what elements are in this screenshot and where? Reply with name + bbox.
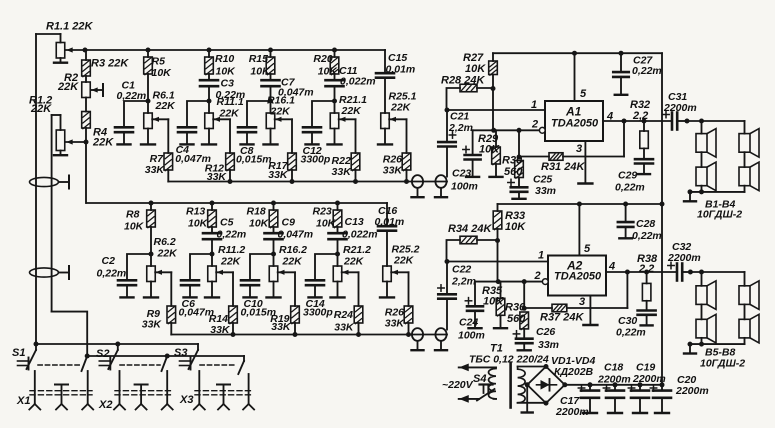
ground B1-B4 bbox=[688, 189, 693, 194]
capacitor C23 bbox=[472, 130, 474, 155]
wire A1 pin2 line bbox=[473, 129, 540, 131]
capacitor C12 bbox=[312, 101, 335, 127]
svg-text:C22: C22 bbox=[452, 264, 471, 276]
svg-text:R13: R13 bbox=[186, 206, 205, 218]
node tone section bbox=[335, 252, 340, 257]
pin 3 wire to ground (A2) bbox=[589, 296, 591, 325]
resistor R12 bbox=[226, 153, 235, 170]
node volume wiper bbox=[83, 48, 88, 53]
svg-text:4: 4 bbox=[608, 261, 615, 273]
capacitor C16 bbox=[386, 203, 388, 226]
svg-text:22K: 22K bbox=[155, 100, 177, 112]
svg-text:3300p: 3300p bbox=[303, 307, 333, 319]
svg-text:2200m: 2200m bbox=[663, 102, 697, 114]
svg-text:C9: C9 bbox=[282, 217, 296, 229]
resistor R23 bbox=[337, 203, 339, 210]
switch S3 pole B bbox=[243, 356, 245, 361]
capacitor C7 bbox=[270, 74, 272, 80]
cable dashes X1 bbox=[30, 390, 92, 392]
svg-text:R21.2: R21.2 bbox=[343, 244, 371, 256]
svg-text:33K: 33K bbox=[332, 166, 353, 178]
svg-text:R11.2: R11.2 bbox=[218, 244, 245, 256]
svg-text:10K: 10K bbox=[483, 296, 504, 308]
wire +V rail (A2 branch) bbox=[498, 203, 663, 205]
svg-text:X1: X1 bbox=[16, 395, 30, 407]
svg-text:0,22m: 0,22m bbox=[97, 268, 127, 280]
svg-text:10K: 10K bbox=[188, 218, 209, 230]
node tone section bbox=[271, 252, 276, 257]
node tone section bbox=[268, 99, 273, 104]
capacitor C8 bbox=[247, 101, 271, 127]
node lower bus tap bbox=[149, 201, 154, 206]
resistor R26 bbox=[404, 306, 413, 323]
node A1 pin2 net bbox=[491, 128, 496, 133]
node R26 to bus bbox=[404, 179, 409, 184]
svg-text:C29: C29 bbox=[618, 170, 637, 182]
potentiometer R1.1 bbox=[60, 34, 62, 43]
capacitor C26 bbox=[523, 329, 525, 339]
svg-text:33K: 33K bbox=[385, 318, 406, 330]
svg-text:10K: 10K bbox=[505, 221, 526, 233]
svg-text:C26: C26 bbox=[536, 326, 555, 338]
resistor R4 bbox=[85, 98, 87, 112]
svg-text:4: 4 bbox=[606, 111, 613, 123]
svg-text:33K: 33K bbox=[145, 164, 166, 176]
svg-text:S3: S3 bbox=[174, 347, 187, 359]
capacitor C1 bbox=[124, 101, 148, 127]
ground B5-B8 bbox=[688, 342, 693, 347]
cable dashes X3 bbox=[195, 390, 253, 392]
resistor R29 bbox=[495, 130, 497, 147]
svg-text:R6.2: R6.2 bbox=[154, 236, 176, 248]
wire +V rail (top) bbox=[493, 52, 662, 54]
node R36/R37 bbox=[522, 306, 527, 311]
capacitor C11 bbox=[334, 74, 336, 80]
svg-text:2200m: 2200m bbox=[667, 252, 701, 264]
op-amp U A1 TDA2050 bbox=[545, 101, 603, 141]
node lower bus tap bbox=[210, 201, 215, 206]
svg-text:C15: C15 bbox=[388, 52, 407, 64]
svg-text:0,22m: 0,22m bbox=[632, 230, 662, 242]
capacitor C17 bbox=[588, 382, 593, 387]
wiper wire of R16.1 bbox=[275, 118, 292, 120]
svg-text:33K: 33K bbox=[383, 165, 404, 177]
svg-text:S1: S1 bbox=[12, 347, 25, 359]
resistor R32 bbox=[643, 121, 645, 131]
switch S1 pole B bbox=[85, 354, 90, 359]
svg-text:3: 3 bbox=[579, 296, 585, 308]
wiper wire of R21.1 bbox=[339, 118, 356, 120]
node balance tap bbox=[84, 140, 89, 145]
gang link S3 bbox=[200, 364, 236, 366]
wire pin2 drop to R36 bbox=[522, 279, 527, 284]
svg-text:33m: 33m bbox=[538, 339, 559, 351]
svg-text:2,2: 2,2 bbox=[632, 110, 648, 122]
switch S2 pole B bbox=[165, 354, 170, 359]
node R17 to bus bbox=[290, 179, 295, 184]
node rail junction bbox=[660, 202, 665, 207]
node R33/R34 bbox=[495, 238, 500, 243]
potentiometer R11.1 bbox=[208, 101, 210, 113]
svg-text:10K: 10K bbox=[216, 66, 237, 78]
capacitor C31 bbox=[671, 113, 674, 130]
svg-text:0,22m: 0,22m bbox=[616, 327, 646, 339]
wiper wire of R25.1 bbox=[389, 118, 406, 120]
potentiometer R6.2 bbox=[150, 254, 152, 266]
capacitor C2 bbox=[127, 254, 151, 280]
svg-text:100m: 100m bbox=[451, 181, 478, 193]
svg-text:0,01m: 0,01m bbox=[386, 64, 416, 76]
svg-text:22K: 22K bbox=[219, 108, 241, 120]
svg-text:5: 5 bbox=[580, 88, 587, 100]
resistor R7 bbox=[164, 153, 173, 170]
capacitor C3 bbox=[208, 74, 210, 80]
svg-text:22K: 22K bbox=[30, 103, 52, 115]
svg-text:R37 24K: R37 24K bbox=[540, 312, 584, 324]
connector terminal upper pair bbox=[412, 175, 423, 188]
node A1 input bbox=[445, 108, 450, 113]
svg-text:33K: 33K bbox=[142, 319, 163, 331]
svg-text:R3 22K: R3 22K bbox=[91, 58, 129, 70]
node top bus tap bbox=[207, 48, 212, 53]
wire A2 input to pin1 bbox=[447, 261, 548, 263]
svg-text:2: 2 bbox=[534, 270, 541, 282]
svg-text:0,015m: 0,015m bbox=[236, 153, 272, 165]
svg-text:R15: R15 bbox=[249, 53, 268, 65]
svg-text:C28: C28 bbox=[636, 218, 655, 230]
resistor R26 bbox=[402, 153, 411, 170]
potentiometer R25.2 bbox=[383, 266, 392, 282]
svg-text:22K: 22K bbox=[282, 256, 304, 268]
wire pin2 drop to R30 bbox=[517, 128, 522, 133]
svg-text:C13: C13 bbox=[345, 216, 364, 228]
svg-text:TDA2050: TDA2050 bbox=[551, 118, 599, 130]
svg-text:X2: X2 bbox=[98, 399, 112, 411]
svg-text:2200m: 2200m bbox=[675, 385, 709, 397]
capacitor C20 bbox=[661, 385, 663, 391]
wiper wire of R16.2 bbox=[278, 271, 295, 273]
node R27/R28 bbox=[491, 86, 496, 91]
wiper wire of R6.2 bbox=[155, 271, 171, 273]
wire preamp output bus (upper) bbox=[168, 181, 447, 183]
resistor R27 bbox=[492, 53, 494, 61]
capacitor C29 bbox=[643, 148, 645, 159]
pin 5 wire (A2) bbox=[578, 204, 580, 256]
svg-text:10ГДШ-2: 10ГДШ-2 bbox=[700, 358, 745, 370]
svg-text:R31 24K: R31 24K bbox=[541, 161, 585, 173]
connector terminal lower pair bbox=[412, 328, 423, 341]
svg-text:ТБС 0,12 220/24: ТБС 0,12 220/24 bbox=[469, 354, 549, 366]
svg-text:C18: C18 bbox=[604, 362, 623, 374]
resistor R13 bbox=[211, 203, 213, 210]
pin 2 input circle bbox=[539, 127, 545, 133]
node pin5 to rail bbox=[572, 51, 577, 56]
potentiometer R6.1 bbox=[147, 101, 149, 113]
resistor R24 bbox=[354, 306, 363, 323]
potentiometer R11.2 bbox=[211, 254, 213, 266]
resistor R5 bbox=[147, 50, 149, 57]
capacitor C14 bbox=[315, 254, 338, 280]
svg-text:2,2m: 2,2m bbox=[451, 276, 476, 288]
node R30/R31 bbox=[517, 155, 522, 160]
pin 2 input circle (A2) bbox=[542, 279, 548, 285]
wiper wire of R6.1 bbox=[152, 118, 168, 120]
svg-text:22K: 22K bbox=[390, 102, 412, 114]
switch S2 bbox=[115, 342, 120, 347]
node feedback tap bbox=[622, 119, 627, 124]
svg-text:R10: R10 bbox=[215, 53, 234, 65]
svg-text:22K: 22K bbox=[341, 105, 363, 117]
pin 3 wire to ground bbox=[584, 141, 586, 183]
svg-text:R1.1 22K: R1.1 22K bbox=[46, 21, 94, 33]
svg-text:5: 5 bbox=[584, 243, 591, 255]
potentiometer R1.2 bbox=[66, 141, 86, 143]
svg-text:22K: 22K bbox=[92, 137, 114, 149]
gang link S2-S3 bbox=[120, 364, 160, 366]
svg-text:1: 1 bbox=[538, 250, 544, 262]
transformer secondary bbox=[518, 367, 526, 403]
switch S3 bbox=[197, 344, 199, 350]
wiper wire of R25.2 bbox=[391, 271, 408, 273]
wire bias to pin2 node bbox=[492, 89, 494, 131]
resistor R20 bbox=[334, 50, 336, 57]
node tone section bbox=[332, 99, 337, 104]
svg-text:2: 2 bbox=[531, 119, 538, 131]
svg-text:R24: R24 bbox=[334, 309, 353, 321]
svg-text:S2: S2 bbox=[96, 348, 109, 360]
node rail bottom bbox=[660, 382, 665, 387]
svg-text:R23: R23 bbox=[313, 206, 332, 218]
node feedback tap (A2) bbox=[625, 270, 630, 275]
node top bus tap bbox=[146, 48, 151, 53]
wiper wire of R11.1 bbox=[213, 118, 230, 120]
svg-text:2200m: 2200m bbox=[555, 406, 589, 418]
node tone section bbox=[207, 99, 212, 104]
svg-text:2,2: 2,2 bbox=[638, 263, 654, 275]
capacitor C27 bbox=[619, 51, 624, 56]
svg-text:0,22m: 0,22m bbox=[217, 229, 247, 241]
connector X3 right pin bbox=[248, 374, 250, 404]
svg-text:100m: 100m bbox=[458, 330, 485, 342]
node R22 to bus bbox=[353, 179, 358, 184]
svg-text:0,22m: 0,22m bbox=[632, 65, 662, 77]
svg-text:22K: 22K bbox=[393, 255, 415, 267]
svg-text:2200m: 2200m bbox=[632, 373, 666, 385]
svg-text:C5: C5 bbox=[220, 217, 234, 229]
node lower bus tap bbox=[271, 201, 276, 206]
wire preamp output bus (lower) bbox=[171, 334, 447, 336]
node tone section bbox=[149, 252, 154, 257]
capacitor C30 bbox=[646, 301, 648, 311]
svg-text:КД202В: КД202В bbox=[554, 366, 594, 378]
wire DC positive line bbox=[565, 384, 662, 386]
capacitor C9 bbox=[273, 227, 275, 233]
resistor R10 bbox=[208, 50, 210, 57]
wiper wire of R21.2 bbox=[342, 271, 359, 273]
svg-text:33K: 33K bbox=[268, 169, 289, 181]
node zobel tap bbox=[642, 119, 647, 124]
node R14 to bus bbox=[231, 332, 236, 337]
svg-text:560: 560 bbox=[507, 313, 526, 325]
svg-text:33K: 33K bbox=[271, 321, 292, 333]
svg-text:560: 560 bbox=[504, 166, 523, 178]
svg-text:10K: 10K bbox=[479, 144, 500, 156]
svg-text:0,22m: 0,22m bbox=[615, 182, 645, 194]
capacitor C21 bbox=[446, 110, 448, 142]
capacitor C18 bbox=[613, 382, 618, 387]
svg-text:C21: C21 bbox=[450, 111, 469, 123]
resistor R31 bbox=[519, 156, 549, 158]
pin 4 output wire bbox=[603, 120, 672, 122]
loudspeakers B5-B8 bbox=[688, 270, 693, 275]
wire top bus (upper channel) bbox=[85, 49, 385, 51]
svg-text:22K: 22K bbox=[57, 81, 79, 93]
svg-text:A1: A1 bbox=[565, 105, 582, 119]
node tone section bbox=[146, 99, 151, 104]
capacitor C25 bbox=[518, 178, 520, 188]
resistor R9 bbox=[167, 306, 176, 323]
svg-text:C30: C30 bbox=[618, 315, 637, 327]
switch S4 bbox=[480, 383, 493, 385]
resistor R19 bbox=[291, 306, 300, 323]
wire switch bus 1 bbox=[36, 343, 198, 345]
resistor R18 bbox=[273, 203, 275, 210]
svg-text:10K: 10K bbox=[316, 218, 337, 230]
capacitor C4 bbox=[187, 101, 209, 127]
node tone section bbox=[210, 252, 215, 257]
svg-text:10K: 10K bbox=[124, 221, 145, 233]
svg-text:C24: C24 bbox=[459, 317, 478, 329]
node R12 to bus bbox=[228, 179, 233, 184]
svg-text:0,022m: 0,022m bbox=[342, 229, 378, 241]
svg-text:0,047m: 0,047m bbox=[278, 229, 314, 241]
capacitor C15 bbox=[384, 50, 386, 73]
loudspeakers B1-B4 bbox=[685, 119, 690, 124]
svg-text:R36: R36 bbox=[505, 302, 526, 314]
resistor R8 bbox=[150, 203, 152, 210]
resistor R15 bbox=[270, 50, 272, 57]
wire switch bus 2 bbox=[87, 355, 244, 357]
resistor R30 bbox=[515, 161, 524, 178]
resistor R38 bbox=[646, 272, 648, 283]
resistor R37 bbox=[524, 307, 552, 309]
svg-text:22K: 22K bbox=[157, 248, 179, 260]
wire to lower channel from R4 bbox=[85, 142, 87, 203]
svg-text:10K: 10K bbox=[465, 63, 486, 75]
potentiometer R21.1 bbox=[334, 101, 336, 113]
switch S1 bbox=[34, 342, 39, 347]
resistor R17 bbox=[288, 153, 297, 170]
bridge rectifier VD1-VD4 bbox=[527, 367, 565, 404]
capacitor C13 bbox=[337, 227, 339, 233]
node zobel tap (A2) bbox=[644, 270, 649, 275]
potentiometer R2 bbox=[85, 76, 87, 82]
svg-text:10K: 10K bbox=[250, 66, 271, 78]
cable dashes X2 bbox=[115, 390, 172, 392]
svg-text:C2: C2 bbox=[102, 255, 116, 267]
svg-text:1: 1 bbox=[531, 99, 537, 111]
node top bus tap bbox=[332, 48, 337, 53]
capacitor C10 bbox=[250, 254, 274, 280]
resistor R35 bbox=[500, 282, 502, 299]
svg-text:0,022m: 0,022m bbox=[340, 76, 376, 88]
svg-text:C23: C23 bbox=[452, 168, 471, 180]
svg-text:TDA2050: TDA2050 bbox=[554, 271, 602, 283]
wiper wire of R11.2 bbox=[216, 271, 233, 273]
mains input arrows ~220V bbox=[459, 366, 496, 368]
svg-text:S4: S4 bbox=[473, 373, 486, 385]
node lower bus tap bbox=[335, 201, 340, 206]
svg-text:22K: 22K bbox=[220, 256, 242, 268]
svg-text:22K: 22K bbox=[270, 106, 292, 118]
svg-text:R5: R5 bbox=[152, 56, 166, 68]
connector X2 right pin bbox=[166, 371, 168, 404]
capacitor C6 bbox=[190, 254, 212, 280]
ground bridge negative bbox=[526, 385, 528, 412]
connector X1 right pin bbox=[87, 371, 89, 404]
gang link S1-S2 bbox=[38, 364, 80, 366]
resistor R14 bbox=[229, 306, 238, 323]
svg-text:2,2m: 2,2m bbox=[448, 122, 473, 134]
resistor R33 bbox=[497, 204, 499, 211]
potentiometer R16.2 bbox=[273, 254, 275, 266]
op-amp U A2 TDA2050 bbox=[548, 256, 606, 296]
resistor R28 bbox=[447, 88, 461, 110]
capacitor C19 bbox=[638, 382, 643, 387]
resistor R3 bbox=[85, 50, 87, 60]
capacitor C28 bbox=[623, 202, 628, 207]
svg-text:0,01m: 0,01m bbox=[375, 216, 405, 228]
node R19 to bus bbox=[293, 332, 298, 337]
wire A1 input to pin1 bbox=[447, 109, 545, 111]
transformer core bbox=[509, 363, 512, 408]
svg-text:3: 3 bbox=[576, 143, 582, 155]
node A2 input bbox=[445, 259, 450, 264]
svg-text:C3: C3 bbox=[221, 78, 235, 90]
capacitor C5 bbox=[211, 227, 213, 233]
svg-text:C19: C19 bbox=[636, 362, 655, 374]
capacitor C22 bbox=[446, 262, 448, 295]
svg-text:33K: 33K bbox=[334, 322, 355, 334]
wire input bus line 2 bbox=[51, 115, 53, 312]
node pin5 to rail (A2) bbox=[577, 202, 582, 207]
connector input jack upper bbox=[30, 177, 59, 186]
svg-text:10K: 10K bbox=[152, 67, 173, 79]
wire feedback (A2) bbox=[626, 272, 628, 308]
node A2 pin2 net bbox=[496, 279, 501, 284]
wire input bus line 1 (left vertical) bbox=[35, 34, 37, 344]
node R24 to bus bbox=[356, 332, 361, 337]
svg-text:3300p: 3300p bbox=[301, 153, 331, 165]
capacitor C32 bbox=[676, 264, 679, 281]
node top bus tap bbox=[268, 48, 273, 53]
capacitor C24 bbox=[474, 282, 476, 307]
svg-text:R8: R8 bbox=[126, 209, 140, 221]
svg-text:10K: 10K bbox=[249, 218, 270, 230]
svg-text:33m: 33m bbox=[535, 185, 556, 197]
wire bias to pin2 node (A2) bbox=[497, 241, 499, 282]
svg-text:R11.1: R11.1 bbox=[217, 96, 244, 108]
svg-text:R18: R18 bbox=[247, 206, 266, 218]
svg-text:R28 24K: R28 24K bbox=[441, 75, 485, 87]
potentiometer R16.1 bbox=[270, 101, 272, 113]
connector X2 middle pin bbox=[135, 384, 148, 386]
svg-text:0,22m: 0,22m bbox=[117, 90, 147, 102]
resistor R36 bbox=[520, 312, 529, 329]
svg-text:R34 24K: R34 24K bbox=[448, 223, 492, 235]
resistor R22 bbox=[351, 153, 360, 170]
potentiometer R21.2 bbox=[337, 254, 339, 266]
